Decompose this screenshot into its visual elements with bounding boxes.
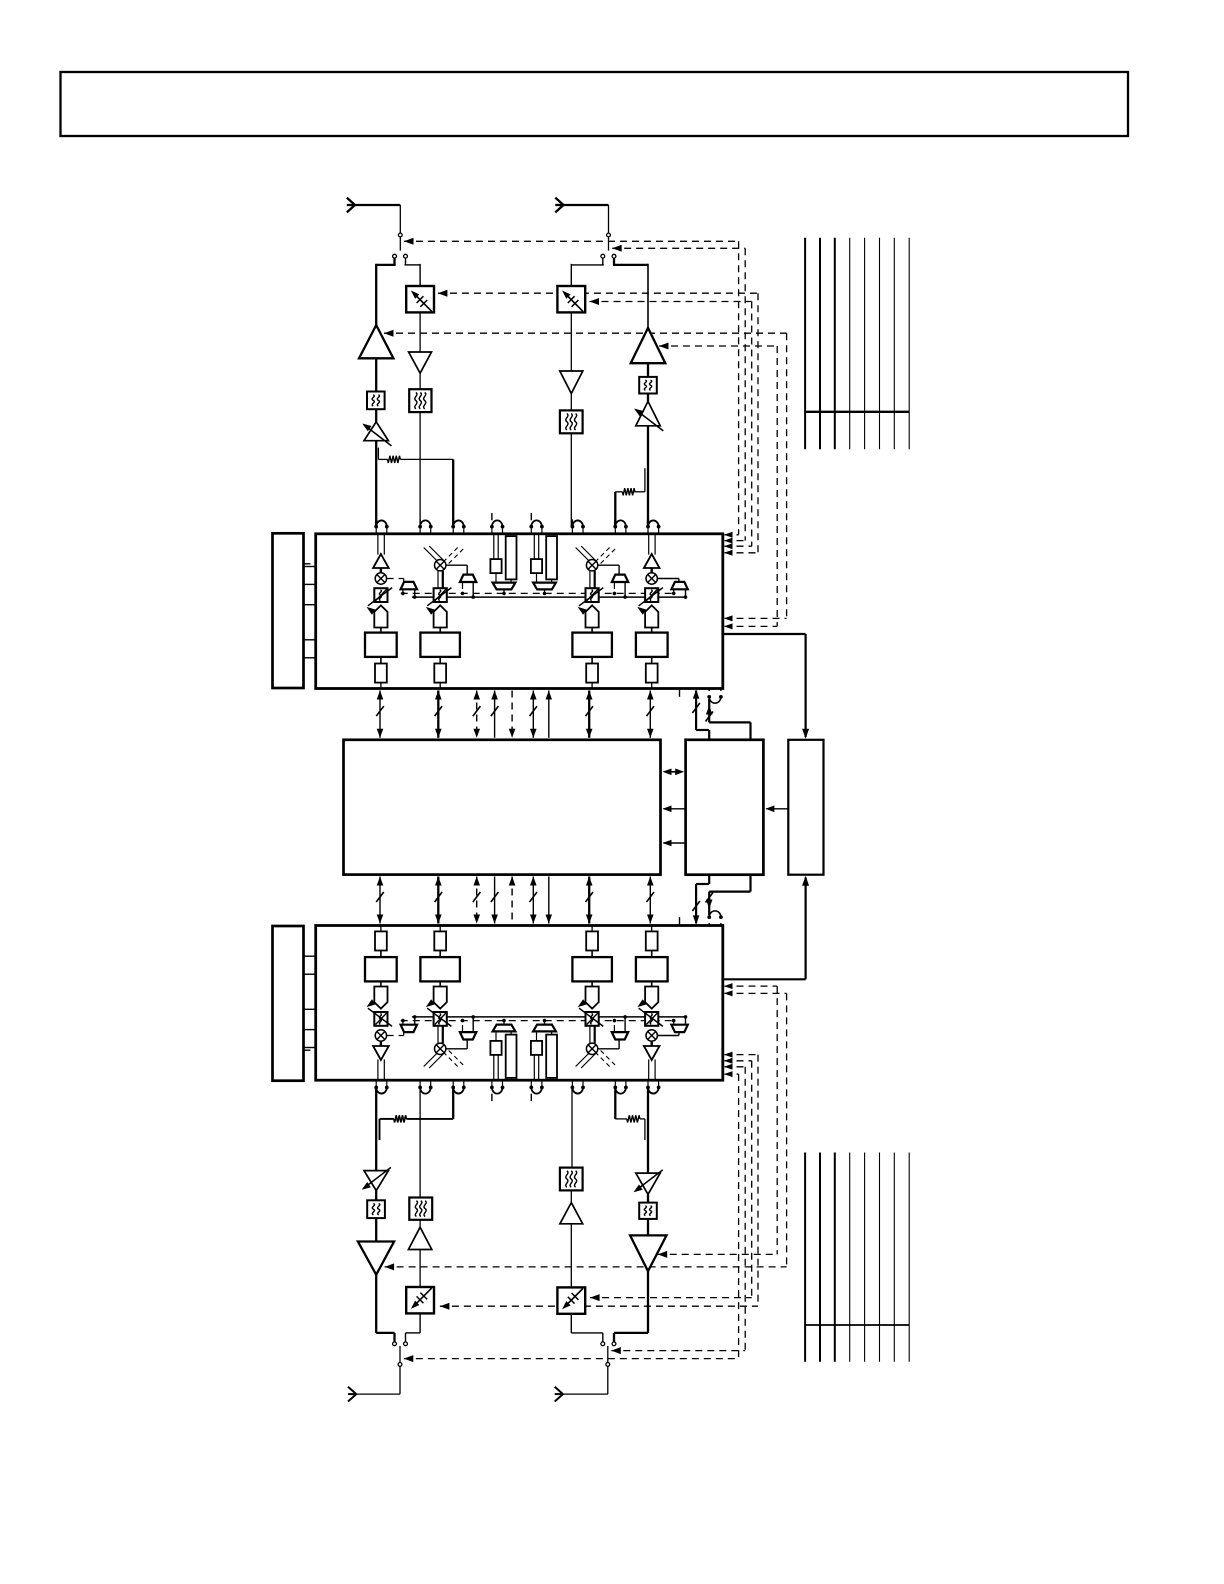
LO distribution bus solid top [412, 596, 685, 598]
T/R switch SW1 common pole [398, 233, 402, 237]
PA power amplifier chain1 [359, 325, 393, 358]
jumper curl bottom [707, 915, 711, 919]
ADC/DAC block x=440 bottom [439, 981, 441, 986]
wire VGA1 to chip port [375, 441, 377, 527]
control line PA2 bias bottom (dashed) [658, 1253, 778, 1255]
wire RF block top to clock block [723, 633, 806, 635]
baseband amplifier x=652 top [645, 605, 658, 627]
wire RX1 to chip port [419, 412, 421, 526]
VGA variable gain amp chain1 TX [364, 422, 388, 441]
wire chip port to VGA chain1 bottom [375, 1087, 377, 1170]
aux DAC column x=536 top [533, 534, 535, 559]
wire [419, 1220, 421, 1227]
RX filter chain1 bottom [409, 1198, 432, 1220]
converter column x=440 RX top [424, 548, 441, 565]
wire [570, 312, 572, 371]
digital interface cell x=381 bottom [380, 951, 382, 958]
baseband amplifier x=381 bottom [374, 987, 387, 1009]
antenna ANT1 [347, 198, 355, 205]
control bus vertical risers top (dashed) [738, 241, 740, 535]
wire [647, 1219, 649, 1236]
digital interface cell x=592 top [591, 657, 593, 664]
ADC/DAC block x=592 bottom [591, 981, 593, 986]
converter column x=592 RX top [576, 548, 593, 565]
aux DAC column x=496 bottom [493, 1055, 495, 1080]
aux DAC column x=536 bottom [533, 1055, 535, 1080]
digital interface cell x=652 bottom [651, 951, 653, 958]
RX attenuator switch chain1 [406, 286, 434, 312]
LNA low noise amp chain2 [560, 371, 583, 394]
tunable baseband filter x=440 top [434, 588, 447, 602]
digital interface bus lines bottom right [804, 1153, 806, 1362]
RX filter chain2 [560, 410, 583, 433]
RX attenuator switch chain2 [557, 286, 585, 312]
SPI/config interface block bottom (left small rect) [273, 926, 304, 1081]
wire RX2 to chip port [570, 433, 572, 526]
ADC/DAC block x=652 top [651, 628, 653, 633]
aux port stubs bottom [491, 1094, 493, 1101]
wire chip port to RX filter chain2 bottom [571, 1087, 573, 1167]
control line SW2 select (dashed) [612, 247, 745, 249]
wire SW2 to TX2 branch [613, 258, 615, 265]
stub pin above RF-bottom block [679, 917, 681, 925]
digital interface cell x=440 top [439, 657, 441, 664]
converter column x=381 TX top [377, 534, 379, 555]
bus middle-big to small double arrow [666, 771, 682, 773]
baseband amplifier x=381 top [374, 605, 387, 627]
baseband amplifier x=440 bottom [434, 987, 447, 1009]
stub pin below RF-top block [679, 689, 681, 697]
RX filter chain1 [409, 389, 431, 412]
wire RF block bottom to clock block [723, 978, 806, 980]
data buses RF-bottom to modem [379, 877, 381, 924]
control line PA1 bias (dashed) [384, 332, 787, 334]
bus small to big arrow lower [664, 842, 686, 844]
wire SW1 to TX1 branch [393, 258, 395, 265]
data buses RF-top to modem [379, 691, 381, 738]
bus small to big arrow upper [664, 808, 686, 810]
baseband amplifier x=592 bottom [586, 987, 599, 1009]
wire [570, 394, 572, 411]
T/R switch SW3 common pole [399, 1346, 401, 1363]
wire column x=440 to edge bottom [439, 926, 441, 932]
wire [375, 409, 377, 422]
bus tall to small arrow [766, 808, 788, 810]
LNA low noise amp chain1 bottom [408, 1227, 431, 1249]
wire [419, 312, 421, 352]
TX filter chain1 bottom [367, 1200, 385, 1218]
pin links left rect to RF block top [304, 563, 316, 565]
port stub wires top [375, 519, 377, 526]
antenna ANT4 [607, 1366, 609, 1394]
resistor detector tap chain2 [644, 468, 646, 492]
LO distribution bus dashed top [401, 592, 674, 594]
wire SW1 to RX1 branch [405, 258, 407, 265]
wire attenuator to switch SW3 [419, 1314, 421, 1333]
RF up/down converter block bottom (big rect) [316, 926, 723, 1081]
wire PA1 to filter [375, 358, 377, 391]
VGA variable gain amp chain1 bottom [364, 1171, 388, 1191]
wire column x=592 to edge bottom [591, 926, 593, 932]
wire tap2 to chip port [614, 492, 616, 527]
tunable baseband filter x=381 bottom [374, 1012, 387, 1026]
control line attenuator2 bottom (dashed) [590, 1297, 752, 1299]
wire VGA2 to chip port [647, 426, 649, 527]
digital interface bus lines top right [804, 238, 806, 450]
wire [570, 1190, 572, 1202]
wire [570, 1224, 572, 1287]
RF port bumps on bottom block edge [374, 1086, 378, 1090]
bus jog control block to RF-bottom B [708, 892, 710, 915]
wire column x=381 to edge top [380, 683, 382, 689]
wire ANT1 to switch SW1 [399, 205, 401, 233]
digital interface cell x=381 top [380, 657, 382, 664]
antenna ANT3 [399, 1366, 401, 1394]
RF port bumps on top block edge [374, 525, 378, 529]
wire RX2 port join [571, 519, 573, 526]
control line SW4 select (dashed) [611, 1350, 745, 1352]
T/R switch SW3 throw terminals [393, 1342, 397, 1346]
RX filter chain2 bottom [560, 1168, 583, 1191]
baseband amplifier x=440 top [434, 605, 447, 627]
SPI/config interface block top (left small rect) [273, 533, 304, 688]
bus jog control block to RF-bottom A [695, 884, 697, 924]
ADC/DAC block x=381 bottom [380, 981, 382, 986]
VGA variable gain amp chain2 bottom [636, 1173, 660, 1194]
clock/PLL block (far right tall) [788, 740, 823, 875]
RF up/down converter block top (big rect) [316, 534, 723, 689]
LNA low noise amp chain1 [409, 352, 432, 373]
header title box [61, 72, 1129, 136]
resistor detector tap chain2 bottom [614, 1087, 616, 1119]
wire [647, 394, 649, 402]
VGA variable gain amp chain2 TX [636, 401, 660, 425]
TX filter chain1 [367, 392, 385, 410]
control line attenuator1 (dashed) [438, 292, 758, 294]
ADC/DAC block x=440 top [439, 628, 441, 633]
PA power amplifier chain1 bottom [358, 1242, 394, 1275]
wire SW2 to RX2 branch [602, 258, 604, 265]
baseband amplifier x=592 top [586, 605, 599, 627]
tunable baseband filter x=440 bottom [434, 1012, 447, 1026]
wire chip port to VGA chain2 bottom [647, 1087, 649, 1173]
wire ANT2 to switch SW2 [608, 205, 610, 233]
ADC/DAC block x=592 top [591, 628, 593, 633]
T/R switch SW2 throw terminals [601, 254, 605, 258]
control/interface block (middle right) [686, 740, 764, 875]
wire [375, 1218, 377, 1241]
tunable baseband filter x=592 bottom [586, 1012, 599, 1026]
PA power amplifier chain2 bottom [630, 1235, 666, 1271]
tunable baseband filter x=652 bottom [645, 1012, 658, 1026]
TX filter chain2 bottom [639, 1203, 657, 1219]
T/R switch SW4 common pole [607, 1346, 609, 1363]
control entries into RF block top (dashed) [725, 534, 739, 536]
wire column x=652 to edge bottom [651, 926, 653, 932]
pin links left rect to RF block bottom [304, 1049, 316, 1051]
LNA low noise amp chain2 bottom [560, 1203, 583, 1224]
T/R switch SW2 common pole [607, 233, 611, 237]
converter column x=592 RX bottom [576, 1050, 593, 1067]
resistor detector tap chain1 bottom [452, 1087, 454, 1119]
ADC/DAC block x=381 top [380, 628, 382, 633]
jumper curl top [707, 695, 711, 699]
wire column x=652 to edge top [651, 683, 653, 689]
converter column x=652 TX top [648, 534, 650, 555]
control line SW3 select (dashed) [404, 1358, 739, 1360]
bus jog RF-top to control block A [695, 691, 697, 731]
TX filter chain2 [639, 377, 657, 394]
control bus vertical risers bottom (dashed) [738, 1074, 740, 1359]
control entries into RF block bottom (dashed) [725, 1073, 739, 1075]
tunable baseband filter x=381 top [374, 588, 387, 602]
wire PA2b to switch SW4 [647, 1271, 649, 1333]
digital interface cell x=592 bottom [591, 951, 593, 958]
RX attenuator switch chain1 bottom [406, 1287, 434, 1313]
wire PA1b to switch SW3 [375, 1275, 377, 1333]
antenna ANT2 [555, 198, 563, 205]
RX attenuator switch chain2 bottom [557, 1287, 585, 1313]
wire [419, 1250, 421, 1287]
control line PA1 bias bottom (dashed) [385, 1266, 787, 1268]
digital interface cell x=652 top [651, 657, 653, 664]
wire [375, 1191, 377, 1201]
control line attenuator2 (dashed) [590, 301, 752, 303]
wire [647, 1194, 649, 1202]
baseband amplifier x=652 bottom [645, 987, 658, 1009]
wire attenuator to switch SW4 [570, 1315, 572, 1333]
wire [647, 363, 649, 377]
control line attenuator1 bottom (dashed) [440, 1305, 758, 1307]
PA power amplifier chain2 [631, 328, 666, 363]
control line PA2 bias (dashed) [659, 345, 777, 347]
converter column x=440 RX bottom [424, 1050, 441, 1067]
digital interface cell x=440 bottom [439, 951, 441, 958]
aux DAC column x=496 top [493, 534, 495, 559]
wire chip port to RX filter chain1 bottom [419, 1087, 421, 1197]
tunable baseband filter x=652 top [645, 588, 658, 602]
baseband/modem digital block (middle) [344, 740, 661, 875]
converter column x=381 TX bottom [377, 1059, 379, 1080]
converter column x=652 TX bottom [648, 1059, 650, 1080]
tunable baseband filter x=592 top [586, 588, 599, 602]
wire column x=592 to edge top [591, 683, 593, 689]
wire [419, 373, 421, 389]
T/R switch SW4 throw terminals [601, 1342, 605, 1346]
bus jog RF-top to control block B [708, 699, 710, 722]
resistor detector tap chain1 [377, 448, 379, 460]
wire column x=440 to edge top [439, 683, 441, 689]
T/R switch SW1 throw terminals [393, 254, 397, 258]
wire tap1 to chip port [452, 459, 454, 526]
wire column x=381 to edge bottom [380, 926, 382, 932]
LO distribution bus solid bottom [412, 1016, 685, 1018]
ADC/DAC block x=652 bottom [651, 981, 653, 986]
control line SW1 select (dashed) [404, 240, 739, 242]
aux port stubs top [491, 513, 493, 520]
LO distribution bus dashed bottom [401, 1020, 674, 1022]
